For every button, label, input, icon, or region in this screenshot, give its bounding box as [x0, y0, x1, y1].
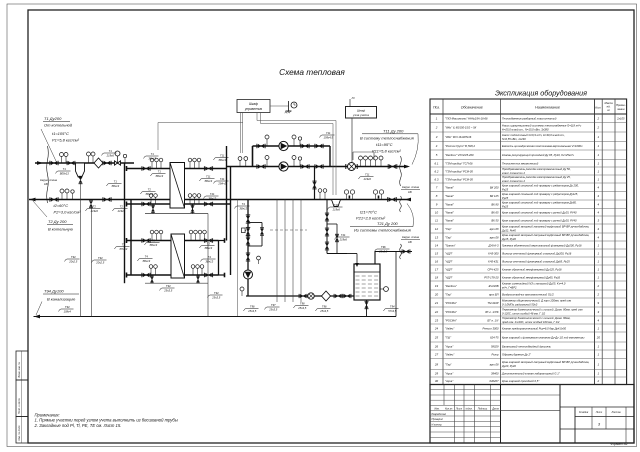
svg-text:РГЛ-178-20: РГЛ-178-20 [484, 275, 499, 279]
svg-text:Т1: Т1 [63, 167, 67, 171]
valve HX1 in [143, 167, 149, 171]
wire: HX2 drain stubs [151, 275, 153, 283]
wire: drain from mud separator x=80.5 [80, 183, 82, 317]
svg-text:2: 2 [597, 126, 600, 130]
svg-text:Экспликация оборудования: Экспликация оборудования [495, 89, 587, 98]
svg-text:25х3,5: 25х3,5 [268, 307, 278, 311]
svg-text:t21=70°C: t21=70°C [360, 210, 377, 215]
svg-text:29: 29 [434, 372, 439, 376]
svg-text:219х6: 219х6 [332, 207, 341, 211]
valve on cold water inlet [403, 250, 409, 253]
svg-text:Ру25: Ру25 [502, 196, 509, 200]
impulse lines to meter unit [277, 200, 301, 303]
gauges HX1 out right [188, 158, 201, 168]
svg-text:ЗВч13: ЗВч13 [111, 184, 119, 188]
svg-text:Т11: Т11 [220, 154, 225, 158]
svg-text:159х4,5: 159х4,5 [323, 135, 333, 139]
wire: supply manifold vertical x=124.5 [124, 163, 126, 283]
valves on softened water riser [325, 213, 329, 250]
svg-text:Кран шаровой проходной 0,5": Кран шаровой проходной 0,5" [502, 379, 540, 383]
gauges HX2 out right [189, 230, 206, 240]
wire: tank drain x=366.5 [366, 300, 368, 317]
sensors before pump riser [238, 157, 248, 167]
metering cabinet [346, 96, 377, 118]
strainer filter on T1 [94, 158, 103, 168]
svg-text:57х3,5: 57х3,5 [388, 309, 397, 313]
makeup storage tank [354, 264, 380, 300]
svg-text:11: 11 [435, 218, 438, 222]
svg-text:Лист: Лист [455, 408, 462, 411]
svg-text:№док.: №док. [465, 408, 472, 411]
gauges HX2 in [150, 230, 163, 240]
mud separator on return inlet [332, 200, 341, 207]
control cabinet [237, 100, 270, 113]
svg-text:"ТЗМ-прибор" ТСП-06: "ТЗМ-прибор" ТСП-06 [445, 162, 473, 166]
svg-text:ЗВч13: ЗВч13 [149, 243, 157, 247]
svg-text:23: 23 [434, 318, 439, 322]
tank drain valve [365, 302, 368, 307]
svg-text:"АДЛ": "АДЛ" [445, 275, 454, 279]
wire: drain riser x=208 [207, 214, 209, 317]
svg-text:Т11 Ду 200: Т11 Ду 200 [383, 129, 404, 134]
sensors cluster on supply exit [359, 156, 384, 167]
valve pump1 discharge [316, 144, 322, 148]
valve HX1 return right [206, 202, 212, 206]
svg-text:класс точности 2: класс точности 2 [502, 171, 525, 175]
bypass riser x=337 [327, 223, 337, 225]
svg-text:Ру25: Ру25 [502, 204, 509, 208]
svg-text:Шкаф: Шкаф [249, 102, 258, 106]
svg-text:Т1 Ду200: Т1 Ду200 [44, 116, 62, 121]
svg-text:Т3: Т3 [152, 239, 156, 243]
pump N1 [279, 141, 288, 150]
svg-text:Р1=5,8 кгс/см²: Р1=5,8 кгс/см² [52, 138, 80, 143]
wire: riser x=230.5 [230, 167, 232, 276]
svg-text:ЗВч13: ЗВч13 [155, 174, 163, 178]
svg-text:Лист: Лист [595, 411, 602, 414]
svg-text:КЧ5-300: КЧ5-300 [488, 251, 499, 255]
svg-text:25х3,5: 25х3,5 [247, 309, 257, 313]
svg-text:2: 2 [597, 284, 600, 288]
svg-text:"ТКЗ-Машимпэкс" НН№19А-16-66: "ТКЗ-Машимпэкс" НН№19А-16-66 [445, 117, 488, 121]
svg-text:класс точности 2: класс точности 2 [502, 179, 525, 183]
HX1 drain valves [152, 206, 155, 211]
label T21 from heating system [350, 204, 414, 233]
gauges pump1 [265, 135, 302, 146]
svg-text:"Тар": "Тар" [445, 292, 453, 296]
svg-text:108х4: 108х4 [64, 309, 72, 313]
svg-text:Дополнительный клапан лаборато: Дополнительный клапан лабораторный G 1" [501, 372, 561, 376]
svg-text:управления: управления [244, 107, 263, 111]
valve 2 on T1 inlet [68, 161, 74, 164]
svg-text:"РОСМА": "РОСМА" [445, 310, 458, 314]
svg-text:Манометр общетехнический, Д ко: Манометр общетехнический, Д корп 100мм, … [502, 299, 571, 303]
svg-text:"Naval": "Naval" [445, 186, 455, 190]
svg-text:Т94: Т94 [390, 305, 395, 309]
svg-text:Наруж. стена: Наруж. стена [402, 185, 420, 189]
flow arrow T2 out [30, 198, 36, 202]
svg-text:Термометр биметаллический с ги: Термометр биметаллический с гильзой. Диа… [502, 308, 583, 312]
svg-text:N=0,55 кВт, 1х230: N=0,55 кВт, 1х230 [502, 137, 526, 141]
gauges on jumper area [318, 189, 327, 200]
svg-text:ЗВч13: ЗВч13 [145, 192, 153, 196]
svg-text:Кран шаровой стальной под прив: Кран шаровой стальной под приварку с руч… [502, 218, 577, 222]
svg-text:Преобразователь расхода электр: Преобразователь расхода электромагнитный… [502, 167, 571, 171]
svg-text:Теплообменник разборный пласти: Теплообменник разборный пластинчатый [502, 117, 557, 121]
gauges on T1 inlet [60, 153, 69, 164]
svg-text:20: 20 [434, 292, 439, 296]
svg-text:Формат А2: Формат А2 [610, 442, 628, 446]
svg-text:Шкаф: Шкаф [357, 108, 366, 112]
svg-text:ЗВч13: ЗВч13 [204, 246, 212, 250]
svg-text:2: 2 [597, 379, 600, 383]
svg-text:"Valtec": "Valtec" [445, 326, 455, 330]
svg-text:Кран шаровой запорный латунный: Кран шаровой запорный латунный муфтовый … [502, 225, 590, 229]
svg-text:0-120С, шток особый 46 мм, Г 1: 0-120С, шток особый 46 мм, Г 1/2 [502, 312, 546, 316]
svg-text:Т96: Т96 [322, 305, 327, 309]
svg-text:21: 21 [434, 301, 439, 305]
svg-text:В канализацию: В канализацию [47, 297, 75, 302]
svg-text:t11=95°C: t11=95°C [376, 142, 393, 147]
svg-text:Т94: Т94 [65, 305, 70, 309]
control wire loop to control valve [158, 123, 243, 151]
svg-text:Фильтр сетчатый фланцевый стал: Фильтр сетчатый фланцевый стальной Ду200… [502, 251, 572, 255]
wire: tank overflow riser x=375 [374, 252, 376, 265]
svg-text:t2=60°C: t2=60°C [54, 203, 69, 208]
valve HX2 return right [206, 273, 212, 277]
svg-text:"РОСМА": "РОСМА" [445, 301, 458, 305]
svg-text:25х3,5: 25х3,5 [297, 306, 307, 310]
svg-text:Т21: Т21 [334, 203, 339, 207]
svg-text:17: 17 [435, 267, 439, 271]
svg-text:Т94: Т94 [166, 284, 171, 288]
svg-text:Кран шаровой стальной под прив: Кран шаровой стальной под приварку с руч… [502, 211, 577, 215]
wire: HX2 row3 stub to riser [219, 240, 225, 242]
svg-text:Фильтр сетчатый фланцевый стал: Фильтр сетчатый фланцевый стальной Ду65,… [502, 259, 570, 263]
svg-text:ТТ: ТТ [122, 243, 126, 247]
svg-text:Т3: Т3 [207, 242, 211, 246]
svg-text:Образец бурения Ду 2": Образец бурения Ду 2" [502, 353, 532, 357]
thermometer after control valve [124, 158, 126, 163]
svg-text:Т94: Т94 [71, 255, 76, 259]
wire: primary supply T1 y=163 [35, 162, 134, 164]
svg-text:Стадия: Стадия [579, 411, 589, 414]
svg-text:20: 20 [596, 335, 601, 339]
valve HX2 return left [143, 273, 149, 277]
svg-text:219х6: 219х6 [90, 209, 99, 213]
svg-text:25: 25 [434, 335, 439, 339]
svg-text:Р11=5,8 кгс/см²: Р11=5,8 кгс/см² [372, 149, 401, 154]
svg-text:t1=105°C: t1=105°C [52, 131, 69, 136]
svg-text:"Аqua": "Аqua" [445, 372, 454, 376]
valve pump2 discharge [316, 165, 322, 169]
caps on HX2 row stubs [126, 238, 128, 243]
svg-text:Взам. инв. №: Взам. инв. № [18, 362, 21, 378]
svg-text:28: 28 [434, 362, 439, 366]
wire: HX2 row out y=275 [127, 274, 172, 276]
flow arrow T1 in [37, 161, 43, 165]
svg-text:ДУ6-К-3: ДУ6-К-3 [488, 243, 499, 247]
wire: overflow to drain x=396 [395, 252, 397, 317]
svg-text:КЧ5-К31: КЧ5-К31 [488, 259, 499, 263]
svg-text:25х3,5: 25х3,5 [319, 309, 329, 313]
svg-text:"Аqua": "Аqua" [445, 344, 454, 348]
valve HX2 out [206, 239, 212, 243]
svg-text:СРЧ-К25: СРЧ-К25 [487, 267, 499, 271]
svg-text:"Росток Групп" В,70/0,2: "Росток Групп" В,70/0,2 [445, 144, 476, 148]
svg-text:Насос циркуляционный системы т: Насос циркуляционный системы теплоснабже… [502, 123, 582, 127]
svg-text:ЗВч13: ЗВч13 [204, 179, 212, 183]
svg-text:арт.08: арт.08 [490, 362, 499, 366]
wall crossing at makeup inlet [400, 244, 402, 259]
valve on T1 inlet [51, 161, 57, 165]
svg-text:Л1: Л1 [351, 96, 356, 100]
wire: pump branch y=146 [253, 145, 331, 147]
svg-text:Т21 Ду 200: Т21 Ду 200 [377, 221, 398, 226]
svg-text:Схема тепловая: Схема тепловая [279, 67, 345, 77]
label T2 to boiler [33, 201, 81, 232]
svg-text:1. Прямые участки перед узлом: 1. Прямые участки перед узлом учета выпо… [35, 418, 178, 423]
control valve with actuator [115, 151, 121, 165]
svg-text:НВ: НВ [44, 182, 48, 186]
svg-text:0-1,0МПа, радиальный 50х3: 0-1,0МПа, радиальный 50х3 [502, 303, 538, 307]
svg-text:14: 14 [435, 243, 439, 247]
svg-text:Н.контр.: Н.контр. [432, 423, 443, 426]
svg-text:В систему теплоснабжения: В систему теплоснабжения [360, 136, 415, 141]
svg-text:Инв. № подл.: Инв. № подл. [18, 425, 21, 441]
wire from metering cabinet to flow sensor [351, 118, 353, 162]
gauges HX2 return left [149, 265, 157, 275]
svg-text:Т98: Т98 [300, 302, 305, 306]
wire: makeup line y=296 [246, 295, 354, 297]
svg-text:Т96: Т96 [381, 245, 386, 249]
wire: HX1 row out y=204 [127, 203, 171, 205]
svg-text:ТМ-310Р: ТМ-310Р [487, 301, 498, 305]
valve pump1 suction [258, 144, 264, 148]
svg-text:ЗПч13: ЗПч13 [119, 247, 127, 251]
svg-text:м³/ч, Г=ВР2: м³/ч, Г=ВР2 [502, 286, 517, 290]
title block grid [430, 385, 634, 444]
svg-text:13: 13 [435, 235, 439, 239]
gauges on T2 outlet [60, 189, 69, 200]
wire: bypass jumper x=314.5 [314, 167, 316, 200]
notes text [34, 412, 178, 428]
thermometer on T2 [72, 193, 74, 199]
svg-text:ВК 50: ВК 50 [491, 218, 499, 222]
svg-text:Т4: Т4 [208, 255, 212, 259]
wire: drain collector under HX2 y=283.2 [145, 282, 208, 284]
svg-text:Подп. и дата: Подп. и дата [18, 398, 21, 414]
svg-text:219х6: 219х6 [339, 237, 348, 241]
svg-text:Т97: Т97 [271, 303, 276, 307]
svg-text:"АДЛ": "АДЛ" [445, 259, 454, 263]
meter boundary dashed line [270, 229, 307, 231]
mud separator on T1 [76, 163, 85, 177]
valve on solenoid bypass [260, 229, 263, 234]
svg-text:Pump: Pump [491, 353, 499, 357]
table rows text [434, 117, 625, 384]
tank level gauge [380, 287, 388, 292]
svg-text:Т11: Т11 [326, 131, 331, 135]
svg-text:Р21=2,0 кгс/см²: Р21=2,0 кгс/см² [356, 216, 386, 221]
normally closed valve [246, 254, 250, 260]
svg-text:Клапан обратный межфланцевый Д: Клапан обратный межфланцевый Ду125, Ру16 [502, 267, 562, 271]
wall label at makeup [401, 235, 420, 244]
svg-text:Поз.: Поз. [433, 106, 440, 110]
svg-text:Р2=3,0 кгс/см²: Р2=3,0 кгс/см² [54, 210, 82, 215]
svg-text:15: 15 [435, 251, 439, 255]
check valve pump2 [302, 165, 308, 169]
svg-text:ЗВч13: ЗВч13 [142, 259, 150, 263]
svg-text:"Naval": "Naval" [445, 218, 455, 222]
label T11 to heating system [360, 129, 418, 165]
svg-text:6.3: 6.3 [434, 177, 438, 181]
svg-text:Кран шаровой стальной под прив: Кран шаровой стальной под приварку с ред… [502, 200, 577, 204]
gauges pump2 [265, 156, 302, 167]
svg-text:Проверил: Проверил [432, 418, 444, 421]
svg-text:Подпись: Подпись [478, 408, 488, 411]
wire: secondary supply header y=166.5 [227, 166, 408, 168]
svg-text:"АДЛ": "АДЛ" [445, 267, 454, 271]
svg-text:"Naval": "Naval" [445, 194, 455, 198]
svg-text:арт.08: арт.08 [490, 227, 499, 231]
svg-text:Т2: Т2 [120, 205, 124, 209]
solenoid coil [242, 228, 247, 233]
thermowells on return inlet [373, 190, 383, 200]
wire: HX2 loop vertical x=218.5 [218, 241, 220, 276]
svg-text:Т1: Т1 [158, 170, 162, 174]
svg-text:Т4: Т4 [242, 202, 246, 206]
wire: HX1 drain stubs [152, 204, 154, 214]
label T94 to sewer [36, 289, 79, 316]
svg-text:Кран шаровой запорный латунный: Кран шаровой запорный латунный муфтовый … [502, 360, 590, 364]
svg-text:25х3,5: 25х3,5 [378, 249, 388, 253]
svg-text:58029: 58029 [491, 344, 499, 348]
svg-text:Клапан регулирующий проходной: Клапан регулирующий проходной Ду 65, Ру1… [502, 153, 574, 157]
svg-text:"Naval": "Naval" [445, 203, 455, 207]
svg-text:ВК 65: ВК 65 [491, 211, 499, 215]
wire: pump join riser x=330 [329, 146, 331, 167]
svg-text:Насос подпиточный G=6,9 м³/ч,: Насос подпиточный G=6,9 м³/ч, Н=30,0 м.в… [502, 133, 565, 137]
svg-text:чание: чание [617, 107, 625, 111]
svg-text:"Danfoss" VXV2/25-200: "Danfoss" VXV2/25-200 [445, 153, 474, 157]
svg-text:26: 26 [434, 344, 439, 348]
side stamp boxes [16, 351, 28, 380]
svg-text:арт.ВЛ: арт.ВЛ [489, 292, 499, 296]
svg-text:"Wilo" MVI 16-6/PN16: "Wilo" MVI 16-6/PN16 [445, 135, 472, 139]
valve on T2 near manifold [104, 198, 110, 202]
gauges after mud separator [87, 152, 96, 163]
pipe tags [56, 131, 399, 313]
svg-text:29Ач3: 29Ач3 [217, 181, 226, 185]
svg-text:ЗВч13: ЗВч13 [148, 156, 156, 160]
svg-text:624-75: 624-75 [490, 335, 499, 339]
valve HX2 in [143, 239, 149, 243]
valve after filter [104, 161, 110, 165]
svg-text:Т96: Т96 [250, 305, 255, 309]
impulse manifold shelf [353, 152, 374, 160]
wire: return manifold vertical x=131 [130, 200, 132, 276]
svg-text:Теплосчетчик механический: Теплосчетчик механический [502, 162, 539, 166]
svg-text:В котельную: В котельную [48, 227, 73, 232]
equipment table grid [430, 99, 627, 385]
wire: impulse drain line x=237.5 [237, 200, 239, 317]
svg-text:30: 30 [435, 379, 439, 383]
strainer on makeup line [322, 291, 331, 301]
svg-text:Кран шаровой с фланцевым клапа: Кран шаровой с фланцевым клапаном Ду-Ду … [502, 335, 584, 339]
valve on bypass jumper [313, 182, 316, 188]
svg-text:"Тар": "Тар" [445, 235, 453, 239]
wire: DHW stack riser x=248 [247, 200, 249, 297]
wire: primary/secondary return y=199.5 [29, 199, 411, 201]
svg-text:25х3,5: 25х3,5 [211, 295, 221, 299]
svg-text:Наименование: Наименование [535, 106, 560, 110]
gauges HX2 return right [191, 265, 204, 275]
wire: solenoid bypass loop [248, 223, 262, 247]
drain valve on T2 [89, 201, 92, 206]
heat exchanger HX2 [171, 234, 185, 278]
flow arrow drain out [34, 315, 40, 319]
label T1 from boiler [41, 116, 80, 161]
svg-text:25х3,5: 25х3,5 [163, 288, 173, 292]
outdoor temperature sensor [270, 101, 297, 113]
svg-text:Т1: Т1 [114, 180, 118, 184]
tank float valve [347, 254, 359, 268]
svg-text:Ду15, Ру40: Ду15, Ру40 [501, 237, 516, 241]
svg-text:20х2,5: 20х2,5 [95, 260, 105, 264]
svg-text:В09х13: В09х13 [60, 171, 70, 175]
HX2 drain valves [151, 277, 154, 281]
svg-text:19: 19 [435, 284, 439, 288]
svg-text:Н=25,0 м.вод.ст., N=15,0 кВт,: Н=25,0 м.вод.ст., N=15,0 кВт, 3х380 [502, 127, 549, 131]
svg-text:ВК 80: ВК 80 [491, 203, 499, 207]
svg-text:"Тар": "Тар" [445, 227, 453, 231]
valve on bypass riser [335, 235, 338, 240]
svg-text:Обозначение: Обозначение [461, 106, 483, 110]
svg-text:2: 2 [435, 126, 438, 130]
svg-text:Т94: Т94 [214, 291, 219, 295]
svg-text:2: 2 [597, 292, 600, 296]
svg-text:2. Закладные под Pl, Tl, PE, T: 2. Закладные под Pl, Tl, PE, TE см. Лист… [34, 423, 122, 428]
svg-text:ЗВч13: ЗВч13 [205, 259, 213, 263]
svg-text:Т21: Т21 [220, 177, 225, 181]
svg-text:арт.08: арт.08 [490, 235, 499, 239]
gauges HX1 return right [188, 194, 201, 204]
mud separator drain valve [79, 177, 82, 182]
svg-text:узла учёта: узла учёта [352, 113, 369, 117]
wire: drain from return x=91.5 [91, 206, 93, 317]
valve stack on makeup riser [246, 216, 250, 222]
gauges HX1 return left [149, 194, 157, 204]
check valve pump1 [302, 144, 308, 148]
softened water riser x=327 [326, 200, 328, 254]
svg-text:Листов: Листов [610, 411, 621, 414]
flow arrow T21 in [405, 198, 411, 202]
control wires down from control cabinet [241, 113, 261, 154]
svg-text:Клапан предохранительный Рср=: Клапан предохранительный Рср=6,0 бар Ду4… [502, 326, 566, 330]
svg-text:Т1: Т1 [151, 152, 155, 156]
wall label right [401, 185, 420, 194]
svg-text:ЗВч13: ЗВч13 [239, 206, 247, 210]
svg-text:6.1: 6.1 [434, 162, 438, 166]
wire: pump split riser x=252.5 [252, 146, 254, 167]
svg-text:Prescor 3000: Prescor 3000 [483, 326, 499, 330]
svg-text:Дата: Дата [491, 408, 499, 411]
wire: HX2 row4 stub to riser [219, 274, 225, 276]
svg-text:Т1: Т1 [109, 149, 113, 153]
svg-text:НВ: НВ [408, 240, 412, 244]
svg-text:Термометр биметаллический с ги: Термометр биметаллический с гильзой. Диа… [502, 316, 571, 320]
